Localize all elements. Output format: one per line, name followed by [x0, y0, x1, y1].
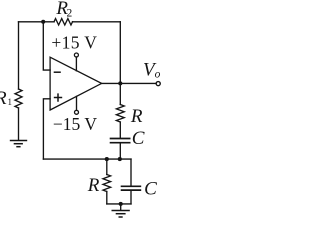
svg-text:1: 1 [8, 97, 13, 107]
wire output to Vo terminal [102, 82, 156, 84]
wire parallel R to bottom [106, 192, 108, 204]
plus marker [54, 93, 62, 101]
wire noninverting input (left and down to RC feedback) [43, 99, 50, 159]
wire parallel C to bottom [130, 191, 132, 204]
resistor R series [116, 105, 124, 123]
wire to ground bottom [120, 204, 122, 210]
wire down to parallel R [106, 159, 108, 174]
resistor R2 [54, 19, 73, 25]
wire output node down to series R [119, 83, 121, 104]
svg-text:R: R [0, 88, 7, 109]
node C1: junction dot parallel R top [105, 157, 109, 161]
node D: junction dot series C bottom [118, 157, 122, 161]
node E: junction dot ground bottom [119, 202, 123, 206]
wire top-left horizontal [19, 21, 55, 23]
capacitor C parallel [121, 186, 142, 190]
wire top-right horizontal [73, 21, 121, 23]
svg-text:R: R [87, 175, 100, 196]
ground (left) [10, 141, 27, 147]
svg-text:R: R [130, 106, 143, 127]
wire series C to feedback node [119, 144, 121, 160]
terminal Vo [156, 82, 160, 86]
wire right vertical from top to output node [119, 22, 121, 84]
svg-text:+15 V: +15 V [51, 33, 97, 53]
wire feedback horizontal [43, 158, 131, 160]
ground (bottom) [112, 211, 130, 218]
pin +15V supply [75, 57, 77, 71]
wire inverting input (from R2 node down and right) [43, 22, 50, 70]
wire R1 to ground [18, 108, 20, 140]
svg-text:o: o [155, 69, 161, 81]
wire left vertical down to R1 [18, 22, 20, 89]
wire bottom horizontal [107, 203, 131, 205]
wire series R to series C [119, 122, 121, 138]
pin -15V supply [76, 96, 78, 110]
node B: junction dot output [118, 81, 122, 85]
resistor R1 [15, 89, 22, 108]
svg-text:C: C [144, 179, 157, 200]
wire down to parallel C [130, 159, 132, 185]
node A: junction dot R2/inverting [41, 20, 45, 24]
op-amp U1 [50, 57, 102, 110]
minus marker [54, 71, 61, 73]
svg-text:2: 2 [67, 7, 73, 19]
capacitor C series [110, 139, 131, 143]
svg-text:−15 V: −15 V [53, 114, 97, 134]
resistor R parallel [103, 175, 111, 192]
svg-text:C: C [132, 128, 145, 149]
